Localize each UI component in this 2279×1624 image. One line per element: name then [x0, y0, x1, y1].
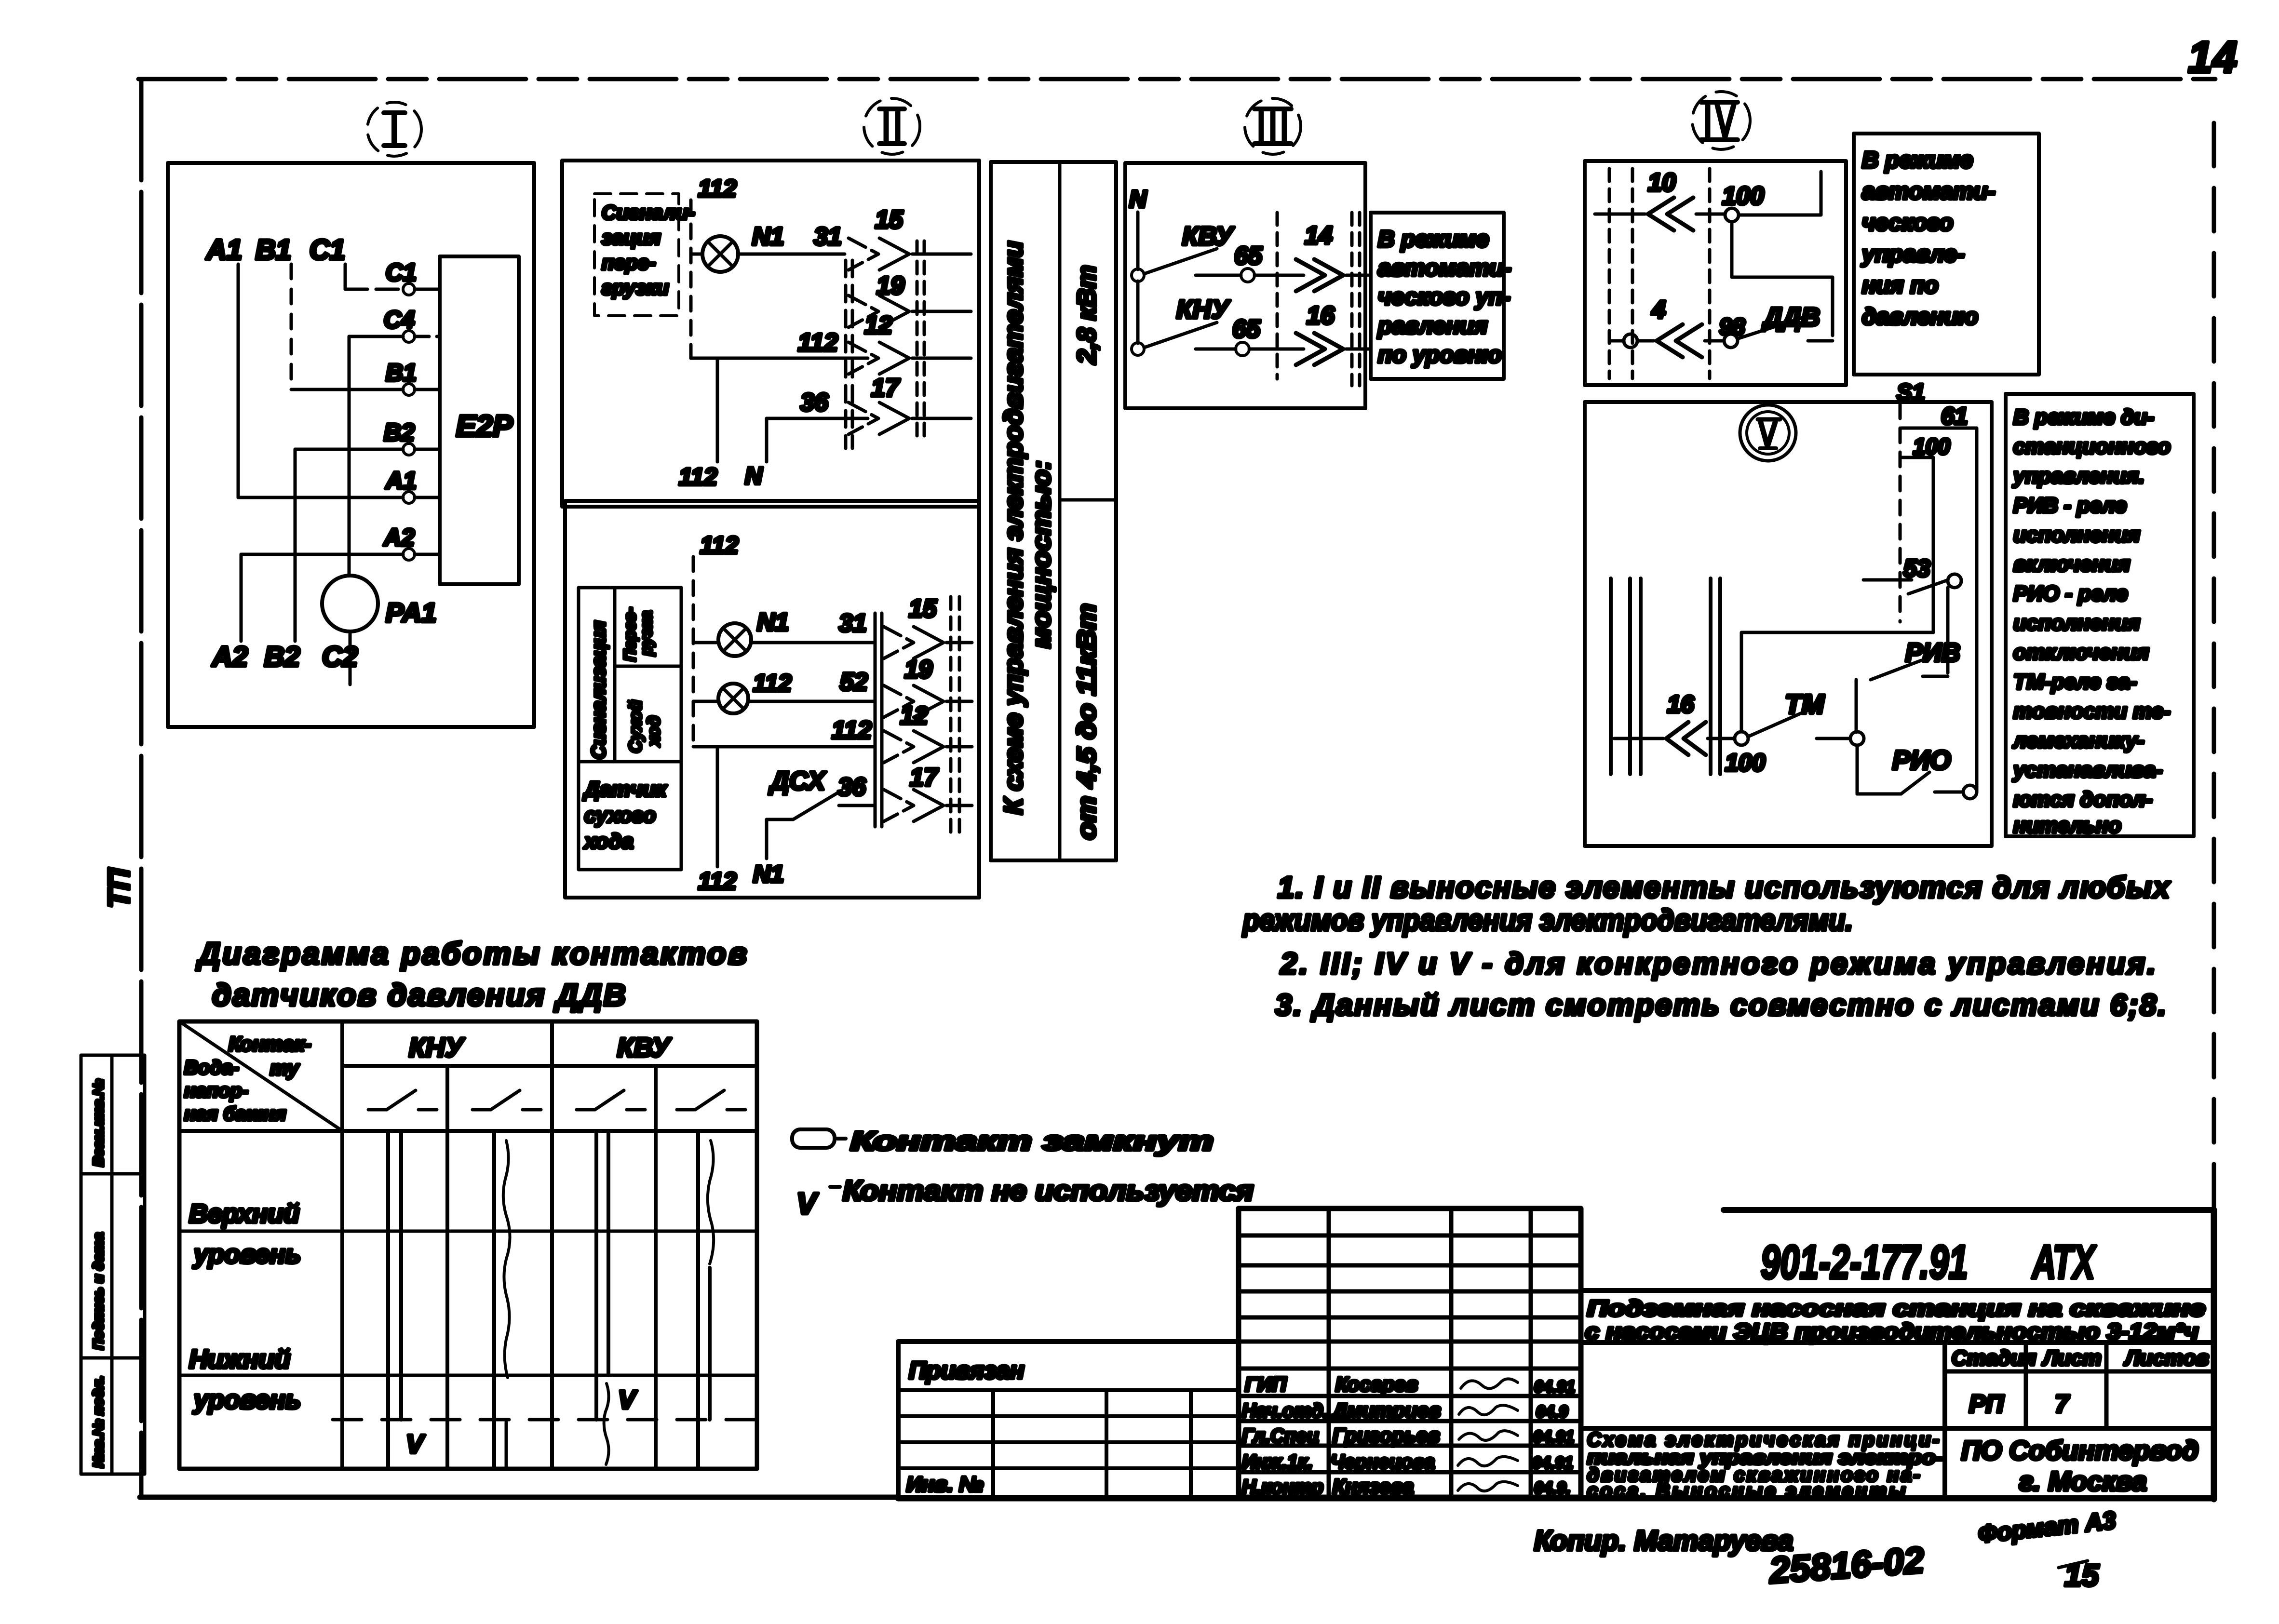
svg-text:Вода-: Вода-	[184, 1057, 239, 1078]
svg-text:В2: В2	[384, 419, 415, 446]
contact state bars col4	[698, 1131, 714, 1469]
connector dashed bar III	[1276, 213, 1279, 379]
terminal N lower	[1132, 343, 1144, 355]
node N label	[1129, 186, 1147, 213]
connector dashed bars IV left	[1609, 169, 1710, 378]
wire lamp to connector row 15	[738, 253, 845, 256]
svg-text:901-2-177.91: 901-2-177.91	[1761, 1235, 1968, 1288]
svg-text:12: 12	[900, 702, 928, 730]
drawing frame right border	[2212, 123, 2216, 1211]
net 112 label lower top	[700, 532, 739, 559]
svg-text:ческого уп-: ческого уп-	[1378, 284, 1510, 310]
connector bars lower	[875, 613, 882, 827]
svg-text:Копир. Матаруева: Копир. Матаруева	[1534, 1525, 1793, 1557]
node B2 bottom label	[264, 641, 300, 672]
wire net 36 row 17 lower	[838, 773, 874, 805]
net 112 label at lamp	[753, 670, 792, 697]
svg-text:Стадия: Стадия	[1952, 1346, 2036, 1370]
contact arrow 16	[1296, 302, 1371, 365]
svg-text:Косарев: Косарев	[1335, 1373, 1418, 1396]
callout IV	[1692, 92, 1750, 149]
ammeter PA1	[322, 576, 436, 684]
svg-text:от 4,5 до 11кВт: от 4,5 до 11кВт	[1072, 604, 1101, 840]
svg-text:А1: А1	[205, 234, 242, 266]
pin 100 label upper	[1913, 434, 1950, 459]
svg-text:С1: С1	[310, 234, 345, 266]
svg-text:равления: равления	[1377, 313, 1488, 339]
svg-text:ту: ту	[270, 1057, 300, 1079]
svg-text:устанавлива-: устанавлива-	[2012, 758, 2163, 782]
svg-text:N1: N1	[757, 608, 789, 636]
svg-text:112: 112	[798, 329, 838, 357]
annotation box mode level control	[1371, 213, 1511, 379]
svg-text:В режиме: В режиме	[1862, 148, 1973, 173]
V mark col3	[618, 1385, 637, 1414]
svg-text:V: V	[796, 1187, 819, 1221]
title block attachment box	[898, 1342, 1239, 1497]
svg-text:С4: С4	[384, 306, 415, 333]
svg-text:с насосами ЭЦВ производительно: с насосами ЭЦВ производительностью 3-12м…	[1585, 1319, 2198, 1344]
detail III boundary box	[1125, 163, 1365, 408]
svg-text:V: V	[618, 1385, 637, 1414]
diagram title	[196, 936, 747, 1012]
lamp N1 lower	[693, 623, 751, 656]
wire net 36 row 17	[767, 389, 868, 418]
stage header	[1952, 1346, 2209, 1418]
wire row 4	[1705, 339, 1724, 343]
svg-text:10: 10	[1648, 169, 1676, 197]
terminal B2	[384, 419, 415, 455]
svg-text:04.9: 04.9	[1536, 1403, 1568, 1421]
svg-text:V: V	[406, 1430, 425, 1459]
svg-text:16: 16	[1667, 691, 1695, 718]
wire row 10	[1595, 213, 1725, 216]
detail V boundary box	[1585, 402, 1992, 846]
terminal 65 lower	[1196, 315, 1261, 356]
svg-text:КНУ: КНУ	[409, 1032, 465, 1062]
svg-text:3. Данный лист смотреть совмес: 3. Данный лист смотреть совместно с лист…	[1275, 989, 2166, 1022]
svg-text:100: 100	[1722, 182, 1764, 210]
svg-text:15: 15	[875, 206, 904, 234]
svg-text:ческого: ческого	[1862, 210, 1953, 236]
svg-text:14: 14	[1305, 222, 1333, 250]
svg-text:КНУ: КНУ	[1176, 295, 1230, 324]
svg-text:ПО Собинтервод: ПО Собинтервод	[1961, 1435, 2198, 1465]
terminal TM left	[1725, 732, 1766, 776]
wire 112 return upper	[679, 358, 717, 490]
annotation box mode remote control	[2006, 394, 2194, 837]
drawing frame top border	[138, 77, 2215, 81]
svg-text:Подпись и дата: Подпись и дата	[91, 1233, 107, 1350]
svg-text:19: 19	[877, 272, 904, 300]
wire row C4	[349, 336, 440, 576]
svg-text:Инж.1к.: Инж.1к.	[1242, 1451, 1313, 1473]
contact state bars col3	[596, 1131, 609, 1464]
terminal 100	[1722, 182, 1764, 222]
contact arrow 10 (left)	[1648, 198, 1693, 230]
svg-text:исполнения: исполнения	[2013, 523, 2140, 547]
svg-text:17: 17	[910, 764, 939, 792]
svg-text:РА1: РА1	[386, 597, 436, 628]
note 1	[1242, 871, 2171, 937]
svg-text:36: 36	[800, 389, 829, 416]
svg-text:16: 16	[1307, 302, 1335, 330]
svg-text:ются допол-: ются допол-	[2013, 788, 2152, 811]
svg-text:S1: S1	[1897, 380, 1925, 405]
svg-text:14: 14	[2188, 33, 2237, 82]
svg-text:В1: В1	[386, 359, 417, 386]
note 3	[1275, 989, 2166, 1022]
wire 100 up stub	[1739, 172, 1821, 215]
svg-text:В режиме: В режиме	[1378, 227, 1489, 252]
svg-text:КВУ: КВУ	[617, 1032, 672, 1062]
organization	[1961, 1435, 2198, 1496]
svg-text:управле-: управле-	[1861, 242, 1965, 267]
svg-text:В2: В2	[264, 641, 300, 672]
V mark col1	[406, 1430, 425, 1459]
table header KNU	[409, 1032, 465, 1062]
contact state bars col2	[494, 1131, 510, 1469]
svg-text:100: 100	[1725, 749, 1766, 776]
svg-text:автомати-: автомати-	[1378, 255, 1511, 281]
svg-text:по уровню: по уровню	[1378, 342, 1502, 368]
svg-text:Инв.№ подл.: Инв.№ подл.	[91, 1376, 107, 1468]
svg-text:Е2Р: Е2Р	[456, 410, 513, 443]
wire row C1	[345, 288, 440, 291]
wire row A1	[238, 496, 440, 499]
connector dashed bars III right	[1352, 213, 1360, 386]
svg-text:ния по: ния по	[1862, 273, 1939, 298]
routing box to motor-control scheme	[991, 162, 1116, 860]
svg-text:61: 61	[1941, 403, 1968, 429]
svg-text:04.91: 04.91	[1533, 1428, 1574, 1446]
terminal C4	[384, 306, 415, 342]
svg-text:N1: N1	[752, 223, 784, 251]
svg-text:автомати-: автомати-	[1862, 179, 1996, 204]
svg-text:4: 4	[1651, 296, 1666, 324]
sheet number 14	[2188, 33, 2237, 82]
svg-text:112: 112	[832, 716, 872, 744]
svg-text:РП: РП	[1969, 1390, 2005, 1418]
pin 16 label	[1667, 691, 1695, 718]
svg-text:112: 112	[679, 463, 717, 490]
archive number	[1767, 1540, 1925, 1591]
svg-text:РИО: РИО	[1892, 745, 1951, 775]
drawing name	[1587, 1429, 1943, 1502]
detail II upper boundary box	[562, 161, 979, 507]
pin 61 label	[1941, 403, 1968, 429]
title block signature ladder	[1239, 1208, 1581, 1497]
lamp 112 dry-run	[693, 684, 748, 713]
format note	[1977, 1506, 2117, 1593]
copier note	[1534, 1525, 1793, 1557]
svg-text:мощностью:: мощностью:	[1027, 460, 1056, 648]
wire phase B1 column (dashed)	[290, 264, 293, 389]
svg-text:15: 15	[909, 595, 937, 623]
wire net 112 vertical (dashed)	[689, 200, 693, 358]
svg-text:РИВ: РИВ	[1905, 638, 1960, 667]
contact 53	[1863, 574, 1961, 594]
terminal 98	[1719, 314, 1745, 348]
signature row Nach.otd Dmitriev	[1242, 1399, 1568, 1422]
svg-text:г. Москва: г. Москва	[2019, 1466, 2147, 1496]
table header KVU	[617, 1032, 672, 1062]
document code	[1761, 1235, 2097, 1288]
note 2	[1280, 947, 2156, 980]
wire N vertical	[1136, 212, 1140, 343]
svg-text:Взам.инв.№: Взам.инв.№	[91, 1079, 107, 1167]
contact arrow 16 (left)	[1666, 722, 1706, 755]
svg-text:Инв. №: Инв. №	[906, 1473, 984, 1496]
svg-text:1. I и II выносные элементы ис: 1. I и II выносные элементы используются…	[1278, 871, 2171, 904]
row label lower level	[189, 1345, 301, 1414]
svg-text:04.91: 04.91	[1534, 1378, 1575, 1396]
contact arrow 4 (left)	[1637, 324, 1702, 357]
svg-text:С2: С2	[322, 641, 358, 672]
contact diagram table	[179, 1021, 757, 1469]
svg-text:Дмитриев: Дмитриев	[1331, 1399, 1441, 1422]
switch glyph col4	[677, 1090, 745, 1110]
svg-text:хода: хода	[583, 830, 634, 853]
svg-text:ДСХ: ДСХ	[769, 766, 826, 795]
svg-text:отключения: отключения	[2013, 641, 2149, 664]
terminal 65 upper	[1196, 242, 1263, 282]
svg-text:04.9.: 04.9.	[1534, 1479, 1571, 1497]
annotation box mode pressure control	[1854, 134, 2039, 375]
wire net 112 vertical lower (dashed)	[692, 557, 695, 747]
svg-text:04.91: 04.91	[1532, 1454, 1573, 1472]
svg-text:19: 19	[904, 656, 932, 684]
svg-text:исполнения: исполнения	[2013, 611, 2140, 635]
callout III	[1245, 98, 1301, 154]
svg-text:Подземная насосная станция на: Подземная насосная станция на скважине	[1587, 1296, 2205, 1321]
svg-text:31: 31	[814, 223, 842, 251]
svg-text:уровень: уровень	[192, 1385, 301, 1414]
contact arrow row 15	[849, 206, 971, 270]
svg-text:52: 52	[840, 668, 868, 696]
svg-text:Нач.отд.: Нач.отд.	[1242, 1400, 1328, 1422]
terminal RIO right	[1963, 785, 1977, 799]
svg-text:ТМ: ТМ	[1785, 689, 1825, 719]
table corner labels	[184, 1033, 311, 1125]
wire 100 to DDV	[1732, 222, 1833, 336]
svg-text:ТМ-реле га-: ТМ-реле га-	[2013, 670, 2137, 694]
connector bars V group2	[1711, 578, 1720, 774]
terminal row 4 left	[1609, 334, 1637, 348]
svg-text:давлению: давлению	[1862, 304, 1978, 330]
svg-text:112: 112	[698, 868, 737, 895]
contact state bars col1	[388, 1131, 401, 1469]
svg-text:Диаграмма работы контактов: Диаграмма работы контактов	[196, 936, 747, 971]
switch glyph col2	[472, 1090, 541, 1110]
terminal B1	[386, 359, 417, 395]
legend unused contact	[796, 1175, 1254, 1221]
contact arrow row 19	[849, 272, 971, 327]
svg-text:С1: С1	[386, 259, 417, 286]
svg-text:КВУ: КВУ	[1182, 222, 1235, 251]
terminal C1	[386, 259, 417, 295]
wire N return upper	[745, 418, 767, 489]
pin 52 label	[840, 668, 868, 696]
wire net 112 row 12	[691, 329, 868, 358]
svg-text:31: 31	[839, 609, 867, 637]
svg-text:12: 12	[864, 311, 892, 339]
terminal A1	[385, 467, 417, 503]
svg-text:65: 65	[1234, 242, 1263, 270]
signature row Inzh.1k Chernetsova	[1242, 1451, 1573, 1473]
node A2 bottom label	[211, 641, 248, 672]
svg-text:А2: А2	[383, 524, 415, 551]
svg-text:Верхний: Верхний	[189, 1199, 299, 1228]
contact arrow row 17	[849, 374, 971, 434]
svg-text:датчиков давления ДДВ: датчиков давления ДДВ	[212, 978, 626, 1012]
svg-text:Нижний: Нижний	[189, 1345, 290, 1374]
svg-text:соса. Выносные элементы: соса. Выносные элементы	[1587, 1480, 1905, 1502]
contact arrow 14	[1296, 222, 1371, 291]
svg-text:65: 65	[1232, 315, 1261, 343]
signature row GIP Kosarev	[1245, 1373, 1575, 1396]
wire KNU to arrow 16	[1249, 348, 1304, 351]
connector bars upper	[846, 260, 852, 448]
svg-text:включения: включения	[2013, 552, 2130, 576]
pin 53 label	[1903, 555, 1930, 582]
svg-text:грузки: грузки	[602, 276, 669, 299]
callout I	[367, 102, 421, 156]
svg-text:товности те-: товности те-	[2013, 699, 2171, 723]
svg-text:нительно: нительно	[2013, 814, 2121, 837]
svg-text:напор-: напор-	[184, 1080, 248, 1101]
contact arrow row 19 lower	[884, 656, 972, 717]
wire lamp N1 to connector	[751, 641, 874, 644]
svg-text:2. III; IV и V - для конкретно: 2. III; IV и V - для конкретного режима …	[1280, 947, 2156, 980]
node N1 label lower	[757, 608, 789, 636]
net 112 label top	[698, 175, 737, 202]
svg-text:17: 17	[871, 374, 900, 402]
object name	[1585, 1296, 2205, 1344]
svg-text:Князева: Князева	[1333, 1475, 1414, 1498]
svg-text:уровень: уровень	[192, 1240, 301, 1269]
contact TM telemetry ready	[1748, 689, 1850, 738]
wire KVU to arrow 14	[1254, 274, 1304, 277]
svg-text:Чернецова: Чернецова	[1331, 1451, 1435, 1473]
node A1 top label	[205, 234, 242, 266]
svg-text:Сигнализация: Сигнализация	[588, 621, 609, 759]
row label upper level	[189, 1199, 301, 1269]
svg-text:зация: зация	[602, 226, 661, 249]
svg-text:Н.контр: Н.контр	[1242, 1476, 1323, 1498]
node S1 label	[1897, 380, 1925, 405]
contact arrow row 12 lower	[884, 702, 972, 763]
svg-text:53: 53	[1903, 555, 1930, 582]
lamp N1 overload	[691, 236, 738, 272]
svg-text:112: 112	[753, 670, 792, 697]
svg-text:N: N	[745, 462, 763, 489]
svg-text:Контакт замкнут: Контакт замкнут	[850, 1126, 1214, 1156]
wire row 16	[1614, 737, 1735, 740]
terminal N upper	[1132, 269, 1144, 282]
svg-text:112: 112	[700, 532, 739, 559]
wire S1 vertical (dashed)	[1899, 404, 1902, 622]
relay coil E2P	[440, 256, 519, 584]
node N1 label	[752, 223, 784, 251]
connector dashed bars upper right	[917, 241, 924, 440]
wire bus to TM	[1741, 632, 1933, 732]
wire 61	[1901, 428, 1977, 792]
detail I boundary box	[168, 163, 534, 727]
margin stamp column	[81, 1055, 145, 1474]
callout II	[864, 98, 920, 154]
svg-text:N1: N1	[753, 860, 784, 887]
detail II lower boundary box	[565, 501, 979, 898]
legend closed contact	[792, 1126, 1214, 1156]
svg-text:управления.: управления.	[2012, 464, 2144, 488]
terminal A2	[383, 524, 415, 560]
svg-text:сухого: сухого	[584, 804, 656, 827]
svg-text:Сухой: Сухой	[625, 700, 645, 753]
contact KNU lower level switch	[1144, 295, 1230, 348]
node B1 top label	[256, 234, 291, 266]
svg-text:Датчик: Датчик	[582, 778, 668, 801]
wire 112 drop lower	[698, 747, 737, 895]
svg-text:станционного: станционного	[2013, 435, 2171, 458]
wire net 112 row 12 lower	[693, 716, 874, 747]
contact DSH dry-run sensor	[753, 766, 840, 887]
svg-text:ТП: ТП	[103, 868, 136, 908]
svg-text:ГИП: ГИП	[1245, 1373, 1287, 1396]
svg-text:РИО - реле: РИО - реле	[2013, 582, 2128, 605]
node C2 bottom label	[322, 641, 358, 672]
svg-text:К схеме управления электродвиг: К схеме управления электродвигателями	[999, 241, 1028, 815]
svg-text:Гл.Спец: Гл.Спец	[1242, 1425, 1319, 1447]
svg-text:рузка: рузка	[637, 611, 656, 656]
callout V	[1740, 405, 1796, 461]
svg-text:112: 112	[698, 175, 737, 202]
contact arrow row 15 lower	[884, 595, 972, 658]
connector bars V group1	[1611, 578, 1641, 774]
pin 31 label lower	[839, 609, 867, 637]
svg-text:36: 36	[838, 773, 866, 801]
svg-text:режимов управления электродвиг: режимов управления электродвигателями.	[1242, 904, 1853, 937]
switch glyph col3	[577, 1090, 645, 1110]
svg-text:А1: А1	[385, 467, 417, 494]
node C1 top label	[310, 234, 345, 266]
contact KVU upper level switch	[1144, 222, 1235, 274]
svg-text:А2: А2	[211, 641, 248, 672]
contact RIO relay-off	[1857, 745, 1962, 794]
wire row B2	[295, 449, 440, 641]
svg-text:N: N	[1129, 186, 1147, 213]
svg-text:Григорьев: Григорьев	[1333, 1424, 1440, 1447]
annotation table signal dry-run	[579, 588, 681, 870]
wire 100 branch	[1901, 457, 1933, 632]
margin label TP	[103, 868, 136, 908]
svg-text:7: 7	[2055, 1390, 2070, 1418]
diagram dashed baseline	[333, 1418, 755, 1422]
svg-text:Листов: Листов	[2124, 1346, 2209, 1370]
svg-text:Привязан: Привязан	[909, 1357, 1025, 1384]
drawing frame left border	[139, 79, 144, 1497]
contact arrow row 17 lower	[884, 764, 972, 821]
svg-text:Лист: Лист	[2042, 1346, 2102, 1370]
connector dashed bars lower right	[951, 597, 959, 839]
drawing frame bottom border	[140, 1495, 900, 1500]
pin 4 label	[1651, 296, 1666, 324]
svg-text:2,8 кВт: 2,8 кВт	[1072, 265, 1101, 364]
svg-text:ДДВ: ДДВ	[1762, 303, 1820, 332]
detail IV boundary box	[1585, 161, 1846, 385]
svg-text:В режиме ди-: В режиме ди-	[2013, 405, 2154, 429]
svg-text:Контак-: Контак-	[229, 1033, 311, 1055]
